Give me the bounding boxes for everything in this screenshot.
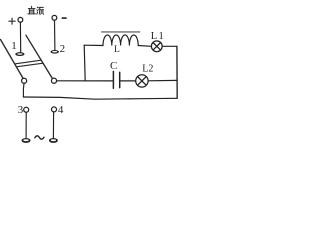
minus sign of DC source [62,17,66,19]
AC terminal ellipse left [22,138,31,143]
label L1 [151,31,165,42]
AC contact circle 4 [52,107,57,112]
capacitor C plates [113,71,119,88]
top branch wire into inductor [84,44,103,46]
wire lamp L2 to right rail [148,79,177,81]
lamp L2 (circle with X) [136,75,148,87]
wire contact 3 down to AC terminal [25,112,27,138]
contact 1 ellipse [15,52,24,56]
svg-text:C: C [110,60,117,72]
switch blade 2 [26,35,53,78]
right rail [176,46,178,98]
wire - terminal down to contact 2 [54,20,56,50]
AC tilde symbol [35,136,44,139]
svg-text:1: 1 [11,40,17,52]
label C [110,60,117,72]
wire capacitor to lamp L2 [121,80,136,82]
bottom rail wire [23,97,177,99]
lamp L1 (circle with X) [151,41,162,52]
svg-text:3: 3 [18,104,24,116]
svg-text:2: 2 [60,43,66,55]
plus sign of DC source [9,18,15,24]
label L [114,45,120,55]
label 直流 (DC) hand-drawn strokes [28,6,44,14]
svg-text:L2: L2 [142,63,153,74]
wire pole 2 to capacitor branch [57,80,113,82]
wire lamp L1 to right rail [162,45,177,47]
inductor iron core line [102,31,140,33]
AC contact circle 3 [24,107,29,112]
wire inductor to lamp L1 [138,45,151,48]
DC negative terminal circle [52,15,57,20]
switch crossbar (two parallel lines) [15,60,43,66]
wire + terminal down to contact 1 [19,22,21,52]
wire pole 1 down to bottom rail [22,83,25,97]
label 3 [18,104,24,116]
label 4 [58,104,64,116]
contact 2 ellipse [51,50,59,54]
left rail of load loop [84,45,85,81]
svg-text:L: L [114,45,120,55]
label 1 [11,40,17,52]
pivot circle pole 1 [22,78,27,83]
wire contact 4 down to AC terminal [52,112,54,138]
AC terminal ellipse right [49,138,58,143]
label L2 [142,63,153,74]
pivot circle pole 2 [51,78,56,83]
svg-text:L1: L1 [151,31,165,42]
svg-text:4: 4 [58,104,64,116]
switch blade 1 [1,40,24,79]
label 2 [60,43,66,55]
DC positive terminal circle [18,17,23,22]
inductor L coil [103,35,138,46]
